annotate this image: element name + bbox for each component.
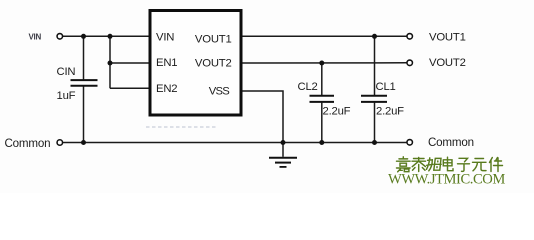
ground <box>269 143 297 167</box>
svg-text:1uF: 1uF <box>57 90 76 102</box>
char zi <box>458 158 470 171</box>
svg-text:VOUT2: VOUT2 <box>429 57 466 69</box>
junction CIN top <box>81 34 86 39</box>
terminal VOUT2 <box>407 60 413 66</box>
junction CL1 top <box>372 34 377 39</box>
faint watermark line under IC <box>146 126 216 128</box>
svg-text:EN1: EN1 <box>156 57 177 69</box>
junction CL2 top <box>319 61 324 66</box>
wire CIN bottom <box>83 86 85 142</box>
svg-text:Common: Common <box>5 137 51 150</box>
svg-text:VOUT1: VOUT1 <box>429 32 466 44</box>
capacitor CIN <box>71 80 98 86</box>
terminal Common right <box>407 140 413 146</box>
watermark Chinese company name strokes <box>397 157 503 172</box>
svg-text:CL2: CL2 <box>298 81 318 93</box>
wire CL2 bottom <box>321 103 323 143</box>
char jian <box>490 158 503 172</box>
wire CL1 bottom <box>374 103 376 143</box>
svg-text:CIN: CIN <box>57 66 76 78</box>
junction EN1 <box>108 61 113 66</box>
junction CIN bottom <box>81 140 86 145</box>
wire EN2 to IC <box>110 87 150 89</box>
capacitor CL2 <box>310 96 335 102</box>
char tai <box>412 158 426 172</box>
svg-text:EN2: EN2 <box>156 83 177 95</box>
junction CL2 bottom <box>319 140 324 145</box>
wire VOUT2 line <box>241 62 407 64</box>
char jia <box>397 157 411 172</box>
svg-text:VIN: VIN <box>29 33 42 42</box>
svg-text:VOUT1: VOUT1 <box>195 34 232 46</box>
svg-text:CL1: CL1 <box>376 81 396 93</box>
capacitor CL1 <box>361 96 387 102</box>
junction VSS rail <box>281 140 286 145</box>
wire CL1 top <box>374 36 376 95</box>
wire VIN terminal to IC VIN pin <box>63 35 150 37</box>
svg-text:Common: Common <box>428 136 474 149</box>
wire EN1 to IC <box>110 62 150 64</box>
wire CL2 top <box>321 63 323 95</box>
wire vertical EN feed <box>109 36 111 88</box>
IC U1 (dual LDO regulator) <box>150 11 241 116</box>
svg-text:2.2uF: 2.2uF <box>376 106 404 118</box>
terminal Common left <box>57 140 63 146</box>
char mu <box>427 158 442 171</box>
svg-text:VOUT2: VOUT2 <box>195 58 232 70</box>
char dian <box>443 157 453 171</box>
junction EN feed top <box>108 34 113 39</box>
svg-text:VSS: VSS <box>209 85 230 97</box>
char yuan <box>473 159 487 171</box>
terminal VIN <box>57 34 63 40</box>
svg-text:VIN: VIN <box>156 32 174 44</box>
wire VSS to ground <box>241 91 283 143</box>
wire common rail <box>63 142 407 144</box>
wire VOUT1 line <box>241 35 407 37</box>
svg-text:WWW.JTMIC.COM: WWW.JTMIC.COM <box>388 172 505 188</box>
terminal VOUT1 <box>407 34 413 40</box>
junction CL1 bottom <box>372 140 377 145</box>
svg-text:2.2uF: 2.2uF <box>323 106 351 118</box>
wire CIN top <box>83 36 85 79</box>
